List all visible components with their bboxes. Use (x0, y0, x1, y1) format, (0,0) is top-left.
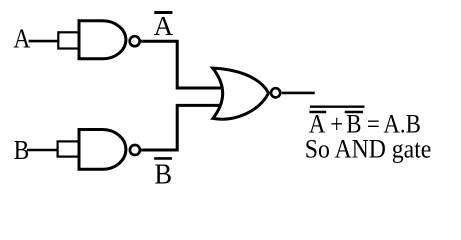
svg-text:So AND gate: So AND gate (305, 134, 432, 164)
svg-text:A: A (13, 24, 31, 54)
svg-text:B: B (154, 157, 172, 189)
svg-text:A: A (154, 11, 174, 41)
svg-text:B: B (14, 136, 30, 166)
